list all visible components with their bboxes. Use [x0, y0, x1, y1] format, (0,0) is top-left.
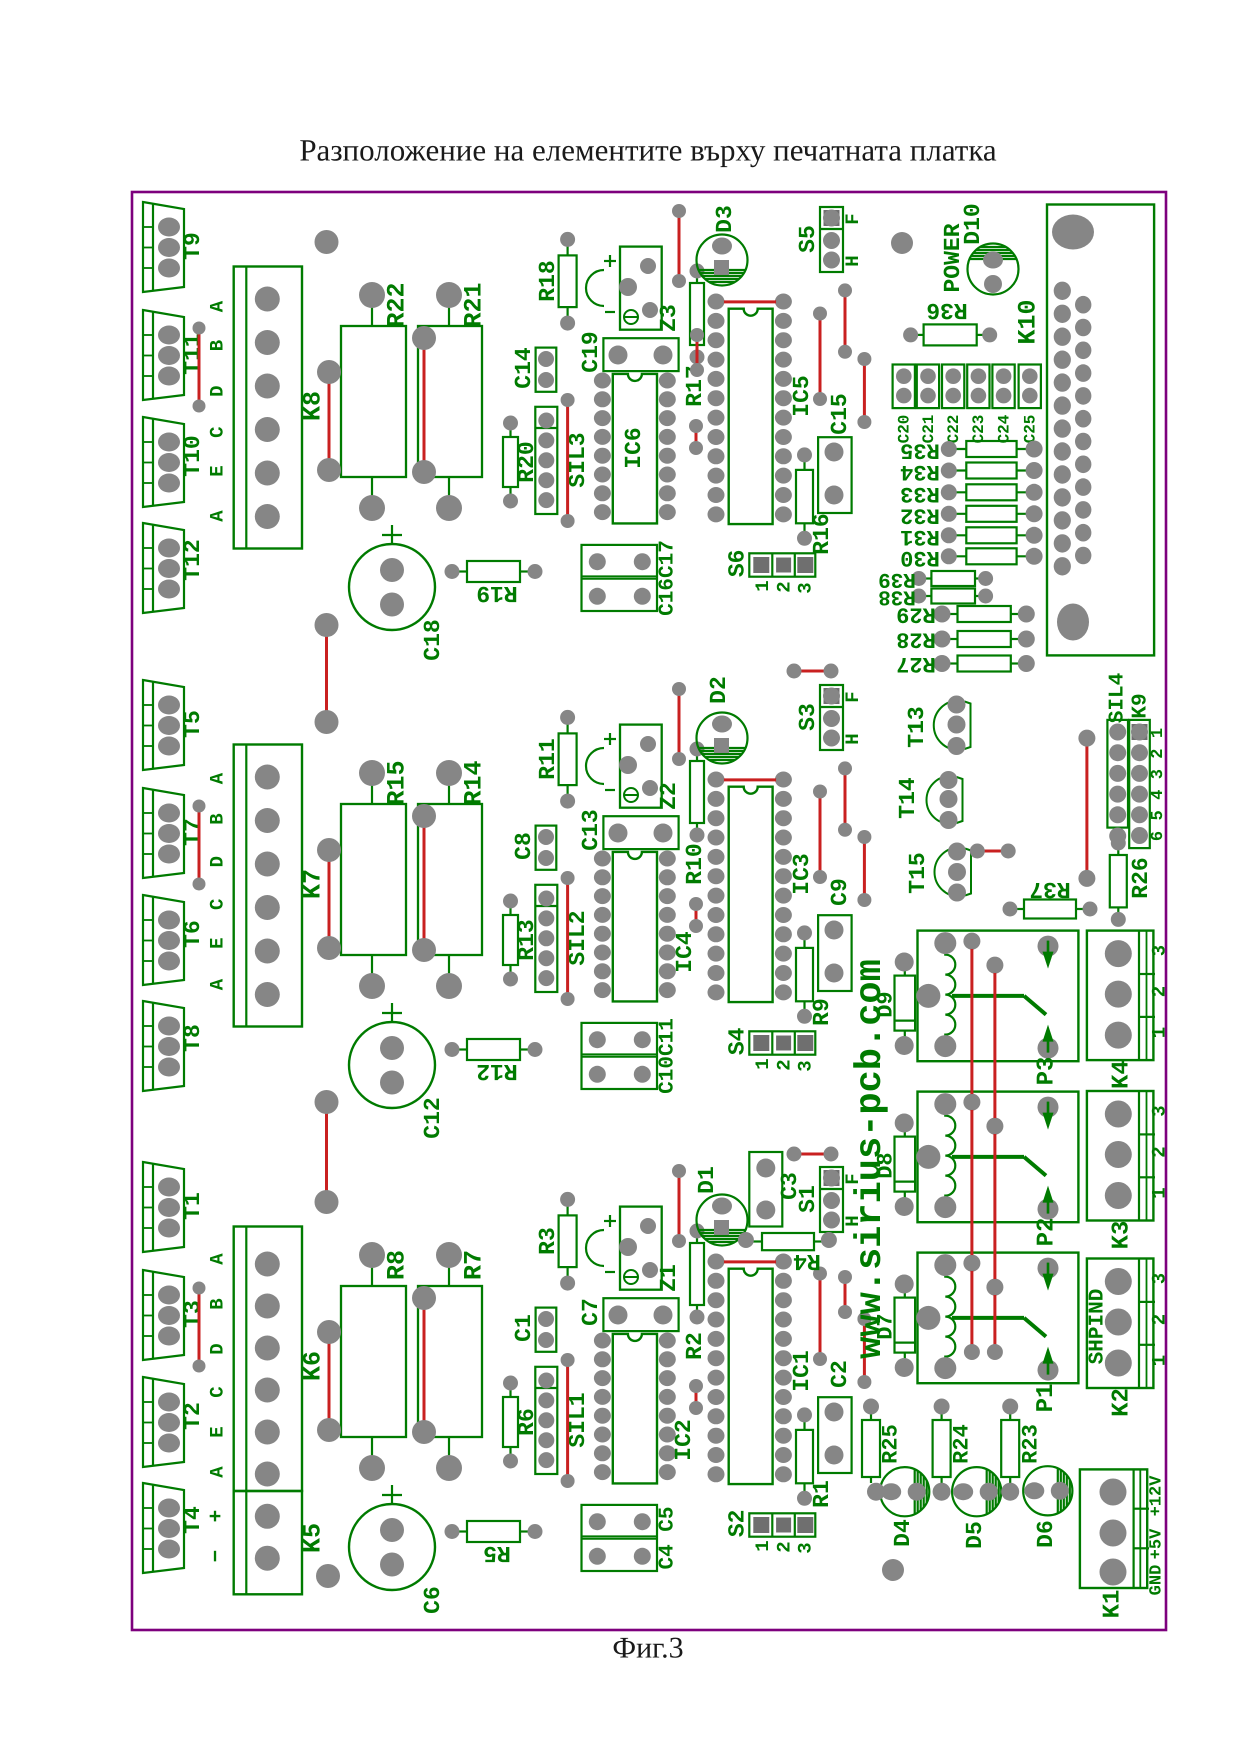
svg-text:Z3: Z3	[656, 304, 682, 332]
wire jumper below R17	[695, 426, 698, 448]
capacitor C9	[818, 878, 853, 991]
svg-text:C24: C24	[995, 414, 1013, 443]
svg-text:R36: R36	[926, 297, 967, 323]
transistor T4	[143, 1483, 206, 1573]
svg-text:1: 1	[1149, 1355, 1171, 1366]
terminal block K2	[1087, 1259, 1171, 1417]
svg-text:K7: K7	[299, 869, 328, 899]
svg-text:R21: R21	[460, 282, 489, 327]
svg-text:P2: P2	[1034, 1218, 1061, 1247]
svg-text:R29: R29	[896, 602, 936, 627]
wire jumper in R7	[423, 1298, 426, 1432]
svg-text:1: 1	[752, 580, 774, 591]
relay P3	[916, 931, 1078, 1062]
svg-text:R1: R1	[809, 1480, 835, 1508]
transistor T15	[905, 843, 971, 902]
wire jumper below R2	[695, 1386, 698, 1408]
svg-text:R22: R22	[383, 282, 412, 327]
svg-text:T8: T8	[180, 1024, 206, 1052]
svg-text:www.sirius-pcb.com: www.sirius-pcb.com	[850, 959, 892, 1359]
svg-text:3: 3	[794, 582, 816, 593]
svg-text:K4: K4	[1109, 1060, 1136, 1089]
resistor R35	[900, 438, 1042, 463]
svg-text:T3: T3	[180, 1300, 206, 1328]
wire jumper at SIL2	[566, 878, 569, 999]
svg-text:R35: R35	[900, 438, 940, 463]
resistor R36	[903, 297, 997, 345]
zener Z3	[619, 247, 682, 332]
wire jumper (horizontal)	[717, 300, 783, 303]
svg-text:K5: K5	[299, 1523, 328, 1553]
resistor R27	[896, 651, 1035, 676]
svg-text:1: 1	[1149, 728, 1168, 738]
resistor R29	[896, 602, 1035, 627]
resistor R6	[503, 1376, 540, 1469]
svg-text:3: 3	[794, 1542, 816, 1553]
diode D7	[874, 1275, 916, 1378]
svg-text:C: C	[207, 1386, 229, 1397]
wire jumper above S1	[794, 1153, 831, 1156]
svg-text:T4: T4	[180, 1506, 206, 1534]
connector K9	[1109, 693, 1168, 848]
transistor T7	[143, 788, 206, 878]
jumper S5	[795, 207, 864, 272]
pad near S5	[891, 232, 913, 254]
svg-text:T1: T1	[180, 1192, 206, 1220]
svg-text:B: B	[207, 1298, 229, 1309]
svg-text:R14: R14	[460, 760, 489, 805]
resistor R10	[682, 742, 708, 885]
LED D5	[952, 1467, 1001, 1549]
resistor R28	[896, 627, 1035, 652]
capacitor C13	[578, 809, 679, 850]
wire jumper (vertical)	[819, 792, 822, 878]
svg-text:C8: C8	[511, 832, 537, 860]
wire jumper (vertical)	[863, 837, 866, 900]
wire jumper above S3	[794, 670, 831, 673]
svg-text:R34: R34	[900, 459, 940, 484]
jumper S1	[795, 1167, 864, 1232]
diode symbol near Z2	[586, 733, 616, 790]
svg-text:S6: S6	[724, 549, 750, 577]
wire jumper (vertical)	[863, 1319, 866, 1382]
resistor network SIL3	[535, 407, 591, 514]
svg-text:D1: D1	[694, 1166, 720, 1194]
svg-text:K10: K10	[1014, 299, 1043, 344]
capacitor C15	[818, 393, 853, 513]
svg-text:C19: C19	[578, 331, 604, 372]
svg-text:R16: R16	[809, 513, 835, 554]
capacitor C3	[749, 1152, 803, 1227]
capacitor C2	[818, 1360, 853, 1473]
pad below K5	[316, 1564, 340, 1588]
svg-text:5: 5	[1149, 810, 1168, 820]
wire jumper near T3	[198, 1288, 201, 1366]
capacitor C14	[511, 347, 556, 392]
svg-text:D: D	[207, 856, 229, 867]
svg-text:2: 2	[773, 1541, 795, 1552]
wire jumper near T7	[198, 806, 201, 884]
IC IC1	[708, 1254, 816, 1485]
IC IC5	[708, 294, 816, 525]
svg-text:A: A	[207, 510, 229, 522]
svg-text:D: D	[207, 1343, 229, 1354]
svg-text:A: A	[207, 1466, 229, 1478]
wire jumper (vertical)	[678, 689, 681, 759]
svg-text:T5: T5	[180, 710, 206, 738]
wire jumper (vertical)	[678, 1171, 681, 1241]
svg-text:2: 2	[1149, 748, 1168, 758]
resistor R2	[682, 1224, 708, 1360]
svg-text:K8: K8	[299, 391, 328, 421]
wire jumper (vertical)	[844, 290, 847, 351]
resistor R1	[796, 1407, 835, 1507]
svg-text:R3: R3	[535, 1227, 561, 1255]
svg-text:D2: D2	[706, 676, 732, 704]
svg-text:R18: R18	[535, 260, 561, 301]
svg-text:C9: C9	[827, 878, 853, 906]
lone pad bottom	[882, 1559, 904, 1581]
svg-text:T9: T9	[180, 232, 206, 260]
resistor R31	[900, 524, 1042, 549]
svg-text:SHPIND: SHPIND	[1087, 1289, 1110, 1365]
svg-text:IC3: IC3	[789, 853, 815, 894]
connector K5	[206, 1491, 328, 1594]
svg-text:C25: C25	[1022, 415, 1040, 444]
wire jumper between blocks 2-3	[325, 1102, 328, 1202]
resistor R21	[418, 282, 489, 521]
connector K8	[234, 267, 328, 549]
terminal block K1	[1080, 1469, 1167, 1618]
transistor T14	[895, 771, 963, 829]
svg-text:R26: R26	[1128, 857, 1154, 898]
resistor R30	[900, 545, 1042, 570]
jumper S4	[724, 1027, 816, 1071]
wire jumper (horizontal)	[717, 778, 783, 781]
resistor R16	[796, 447, 835, 554]
resistor R38	[878, 585, 993, 608]
svg-text:D: D	[207, 385, 229, 396]
transistor T5	[143, 680, 206, 770]
resistor R18	[535, 232, 577, 331]
terminal block K4	[1087, 931, 1171, 1089]
svg-text:D3: D3	[712, 205, 738, 233]
resistor R3	[535, 1192, 577, 1291]
resistor R4	[738, 1232, 837, 1274]
capacitors C4 C5	[582, 1505, 680, 1571]
svg-text:D6: D6	[1033, 1520, 1059, 1548]
resistor R37	[1003, 876, 1098, 919]
transistor T1	[143, 1162, 206, 1252]
wire jumper between blocks 1-2	[325, 625, 328, 722]
svg-text:F: F	[842, 691, 864, 702]
svg-text:+12V: +12V	[1148, 1475, 1167, 1517]
svg-text:C12: C12	[420, 1097, 446, 1138]
pin letters of K6	[207, 1253, 229, 1478]
svg-text:T7: T7	[180, 818, 206, 846]
svg-text:R7: R7	[460, 1250, 489, 1280]
svg-text:B: B	[207, 813, 229, 824]
relay red-line pads	[964, 1094, 980, 1110]
svg-text:S2: S2	[724, 1509, 750, 1537]
svg-text:T11: T11	[180, 333, 206, 374]
svg-text:C2: C2	[827, 1360, 853, 1388]
wire jumper right of K8	[328, 372, 331, 470]
svg-text:F: F	[842, 213, 864, 224]
jumper S3	[795, 685, 864, 750]
svg-text:SIL4: SIL4	[1107, 673, 1130, 723]
svg-text:E: E	[207, 1426, 229, 1437]
diode D8	[874, 1114, 916, 1217]
svg-text:R23: R23	[1019, 1424, 1044, 1464]
wire jumper across relays B	[993, 965, 996, 1352]
wire jumper in R14	[423, 816, 426, 950]
resistor R23	[1001, 1399, 1043, 1484]
IC IC6	[594, 373, 676, 524]
svg-text:R32: R32	[900, 502, 940, 527]
svg-text:R8: R8	[383, 1250, 412, 1280]
wire jumper (vertical)	[819, 1274, 822, 1360]
svg-text:IC2: IC2	[671, 1419, 697, 1460]
resistor R22	[341, 282, 412, 521]
pad above K8	[315, 230, 339, 254]
svg-text:1: 1	[752, 1540, 774, 1551]
svg-text:1: 1	[1149, 1027, 1171, 1038]
svg-text:C13: C13	[578, 809, 604, 850]
svg-text:E: E	[207, 937, 229, 948]
svg-text:3: 3	[1149, 1105, 1171, 1116]
wire jumper across relays A	[970, 941, 973, 1352]
svg-text:K6: K6	[299, 1351, 328, 1381]
wire jumper (horizontal)	[717, 1260, 783, 1263]
svg-text:C18: C18	[420, 619, 446, 660]
jumper S2	[724, 1509, 816, 1553]
svg-text:3: 3	[794, 1060, 816, 1071]
pin letters of K8	[207, 300, 229, 522]
svg-text:C15: C15	[827, 393, 853, 434]
capacitor C12	[349, 1003, 446, 1139]
svg-text:D10: D10	[960, 203, 986, 244]
svg-text:C3: C3	[777, 1172, 803, 1200]
svg-text:4: 4	[1149, 790, 1168, 800]
svg-text:6: 6	[1149, 831, 1168, 841]
svg-text:P3: P3	[1034, 1057, 1061, 1086]
transistor T11	[143, 310, 206, 400]
wire jumper (vertical)	[678, 211, 681, 281]
wire jumper right of K6	[328, 1332, 331, 1430]
svg-text:R2: R2	[682, 1332, 708, 1360]
svg-text:K2: K2	[1109, 1388, 1136, 1417]
svg-text:C10C11: C10C11	[657, 1018, 680, 1094]
LED D1	[694, 1166, 748, 1245]
connector K10	[1014, 205, 1155, 656]
svg-text:H: H	[842, 733, 864, 744]
wire jumper (vertical)	[844, 1277, 847, 1312]
transistor T13	[904, 696, 971, 756]
svg-text:R11: R11	[535, 738, 561, 779]
wire jumper in R21	[423, 338, 426, 472]
wire jumper near SIL4	[1085, 738, 1088, 878]
wire jumper near T11	[198, 328, 201, 406]
relay P1	[916, 1253, 1078, 1384]
terminal block K3	[1087, 1091, 1171, 1249]
capacitor C6	[349, 1485, 446, 1614]
svg-text:K3: K3	[1109, 1221, 1136, 1250]
svg-text:Разположение на елементите вър: Разположение на елементите върху печатна…	[299, 133, 997, 168]
capacitor C25	[1019, 365, 1041, 444]
svg-text:GND: GND	[1148, 1565, 1167, 1596]
svg-text:R15: R15	[383, 760, 412, 805]
svg-text:Фиг.3: Фиг.3	[612, 1632, 683, 1665]
pad below R24	[933, 1483, 951, 1501]
svg-text:R9: R9	[809, 998, 835, 1026]
svg-text:Z2: Z2	[656, 782, 682, 810]
IC IC2	[594, 1333, 697, 1484]
resistor network SIL4	[1107, 673, 1130, 828]
svg-text:T10: T10	[180, 435, 206, 476]
svg-text:C7: C7	[578, 1298, 604, 1326]
wire jumper (vertical)	[863, 359, 866, 422]
pad below R23	[1001, 1483, 1019, 1501]
resistor R20	[503, 416, 540, 509]
svg-text:T14: T14	[895, 777, 921, 819]
svg-text:−: −	[206, 1550, 229, 1563]
resistor R14	[418, 760, 489, 999]
svg-text:A: A	[207, 772, 229, 784]
svg-text:2: 2	[773, 1059, 795, 1070]
svg-text:3: 3	[1149, 945, 1171, 956]
svg-text:S4: S4	[724, 1027, 750, 1055]
svg-text:Z1: Z1	[656, 1264, 682, 1292]
capacitor C1	[511, 1308, 556, 1352]
capacitor C7	[578, 1298, 679, 1331]
resistor R15	[341, 760, 412, 999]
svg-text:+: +	[206, 1510, 229, 1523]
svg-text:C4 C5: C4 C5	[657, 1506, 680, 1569]
diode D9	[874, 953, 916, 1056]
resistor R13	[503, 894, 540, 987]
wire jumper (short)	[696, 335, 699, 370]
transistor T10	[143, 417, 206, 507]
resistor R5	[445, 1521, 543, 1566]
LED D3	[697, 205, 748, 285]
svg-text:C: C	[207, 426, 229, 437]
svg-text:R24: R24	[950, 1424, 975, 1464]
svg-text:IC6: IC6	[621, 427, 647, 468]
svg-text:A: A	[207, 978, 229, 990]
svg-text:C1: C1	[511, 1314, 537, 1342]
LED D4	[880, 1467, 929, 1547]
resistor R12	[445, 1039, 543, 1084]
capacitors C10C11	[582, 1018, 680, 1094]
svg-text:R30: R30	[900, 545, 940, 570]
capacitor C24	[992, 365, 1014, 444]
svg-text:1: 1	[752, 1058, 774, 1069]
resistor R32	[900, 502, 1042, 527]
svg-text:C22: C22	[945, 415, 963, 444]
svg-text:R25: R25	[879, 1424, 904, 1464]
svg-text:2: 2	[773, 581, 795, 592]
svg-text:+5V: +5V	[1148, 1528, 1167, 1559]
svg-text:R4: R4	[793, 1248, 821, 1274]
capacitor C18	[349, 525, 446, 661]
svg-text:H: H	[842, 255, 864, 266]
capacitor C21	[917, 365, 939, 444]
capacitor C19	[578, 331, 679, 372]
svg-text:P1: P1	[1033, 1384, 1060, 1413]
transistor T8	[143, 1001, 206, 1091]
capacitor C8	[511, 826, 556, 870]
zener Z2	[619, 725, 682, 810]
IC IC3	[708, 772, 816, 1003]
svg-text:K9: K9	[1130, 693, 1153, 718]
svg-text:A: A	[207, 300, 229, 312]
resistor R7	[418, 1242, 489, 1481]
svg-text:IC1: IC1	[789, 1350, 815, 1391]
resistor R33	[900, 481, 1042, 506]
svg-text:C16C17: C16C17	[657, 540, 680, 616]
svg-text:T6: T6	[180, 920, 206, 948]
pad below R25	[867, 1483, 885, 1501]
transistor T12	[143, 523, 206, 613]
svg-text:B: B	[207, 340, 229, 351]
svg-text:C14: C14	[511, 347, 537, 389]
LED D6	[1023, 1466, 1072, 1548]
transistor T3	[143, 1270, 206, 1360]
svg-text:K1: K1	[1100, 1590, 1127, 1619]
diode symbol near Z3	[586, 255, 616, 312]
svg-text:IC5: IC5	[789, 375, 815, 416]
svg-text:R33: R33	[900, 481, 940, 506]
svg-text:2: 2	[1149, 986, 1171, 997]
connector K6	[234, 1227, 328, 1492]
capacitor C20	[893, 365, 915, 444]
board outline	[132, 192, 1166, 1630]
svg-text:E: E	[207, 465, 229, 476]
wire jumper below R10	[695, 904, 698, 926]
relay P2	[916, 1092, 1078, 1223]
svg-text:R5: R5	[483, 1540, 511, 1566]
zener Z1	[619, 1207, 682, 1292]
resistor R11	[535, 710, 577, 809]
wire jumper right of K7	[328, 850, 331, 948]
svg-text:T12: T12	[180, 539, 206, 580]
svg-text:R37: R37	[1029, 876, 1070, 902]
svg-text:2: 2	[1149, 1314, 1171, 1325]
svg-text:2: 2	[1149, 1146, 1171, 1157]
resistor R25	[862, 1399, 904, 1484]
capacitors C16C17	[582, 540, 680, 616]
svg-text:C23: C23	[970, 415, 988, 444]
wire jumper at SIL1	[566, 1360, 569, 1481]
svg-text:T13: T13	[904, 706, 930, 747]
LED D2	[697, 676, 748, 763]
resistor R26	[1110, 836, 1154, 927]
resistor R8	[341, 1242, 412, 1481]
svg-text:R10: R10	[682, 843, 708, 884]
svg-text:D4: D4	[890, 1519, 916, 1547]
svg-text:R28: R28	[896, 627, 936, 652]
svg-text:R27: R27	[896, 651, 936, 676]
transistor T6	[143, 895, 206, 985]
transistor T9	[143, 202, 206, 292]
svg-text:T2: T2	[180, 1402, 206, 1430]
wire jumper at T15	[977, 850, 1008, 853]
IC IC4	[594, 851, 698, 1002]
svg-text:3: 3	[1149, 769, 1168, 779]
svg-text:A: A	[207, 1253, 229, 1265]
jumper S6	[724, 549, 816, 593]
